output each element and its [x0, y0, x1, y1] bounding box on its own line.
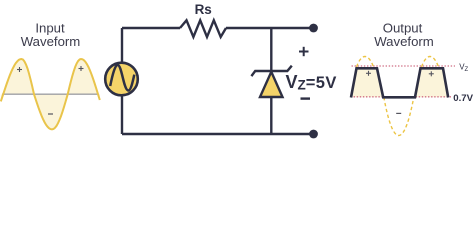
anode triangle: [260, 72, 283, 97]
output clipped waveform: [351, 68, 448, 97]
input axis: [2, 93, 98, 95]
wire: zener branch upper: [270, 28, 272, 71]
node B bottom: [309, 130, 318, 139]
dashed sine peak arc 2 (clipped above Vz): [422, 57, 439, 68]
wire: top rail right segment: [226, 27, 314, 29]
wire: top rail left segment: [122, 27, 180, 29]
node A top: [309, 24, 318, 33]
minus sign trough: [48, 113, 53, 115]
output trapezoid fill 2: [415, 68, 448, 97]
svg-text:0.7V: 0.7V: [453, 93, 473, 104]
dashed sine peak arc 1 (clipped above Vz): [357, 57, 374, 68]
svg-text:Waveform: Waveform: [374, 34, 434, 49]
ac source V1: [105, 63, 138, 96]
plus sign hump1: [17, 67, 22, 72]
resistor Rs zigzag: [180, 20, 226, 37]
input sine fill: [1, 59, 100, 129]
svg-text:Waveform: Waveform: [21, 34, 81, 49]
svg-text:VZ: VZ: [459, 62, 468, 73]
plus sign trapezoid1: [366, 71, 371, 76]
output trapezoid fill 1: [351, 68, 383, 97]
plus sign hump2: [79, 66, 84, 71]
zener diode D1: [251, 66, 291, 97]
zener minus: [301, 97, 311, 99]
label: Input Waveform: [21, 21, 81, 50]
dashed line Vz level: [352, 65, 456, 67]
svg-text:VZ=5V: VZ=5V: [286, 72, 337, 93]
wire: zener branch lower: [270, 97, 272, 134]
zener plus: [299, 47, 309, 56]
dashed sine trough arc (clipped below -0.7V): [384, 97, 414, 136]
wire: left vertical (source branch): [121, 28, 123, 134]
svg-text:Rs: Rs: [195, 2, 212, 17]
cathode bar with zener ticks: [251, 66, 291, 76]
minus sign output trough: [396, 112, 401, 114]
plus sign trapezoid2: [429, 71, 434, 76]
input sine stroke: [1, 59, 100, 129]
wire: bottom rail: [122, 133, 314, 135]
dashed line 0.7V level: [351, 96, 452, 98]
label: Output Waveform: [374, 21, 434, 50]
